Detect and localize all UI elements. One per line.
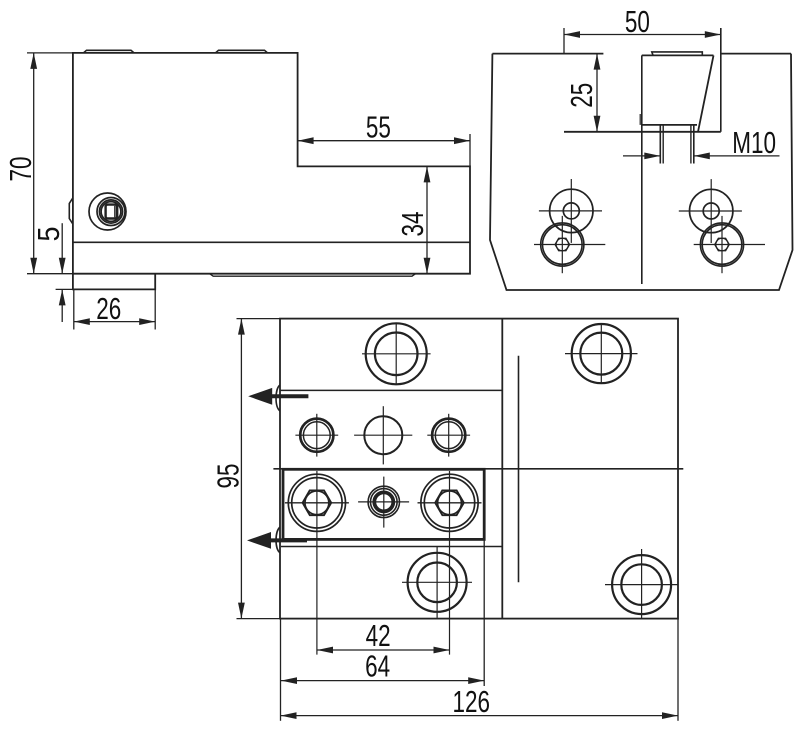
svg-text:34: 34	[396, 212, 430, 237]
svg-text:50: 50	[625, 5, 650, 39]
svg-text:M10: M10	[732, 126, 776, 160]
svg-text:26: 26	[96, 292, 121, 326]
svg-text:55: 55	[366, 111, 391, 145]
svg-text:5: 5	[32, 227, 66, 242]
svg-text:64: 64	[365, 650, 390, 684]
svg-text:126: 126	[453, 685, 491, 719]
svg-text:42: 42	[366, 619, 391, 653]
svg-text:95: 95	[212, 464, 246, 489]
svg-text:70: 70	[4, 157, 38, 182]
svg-text:25: 25	[565, 83, 599, 108]
